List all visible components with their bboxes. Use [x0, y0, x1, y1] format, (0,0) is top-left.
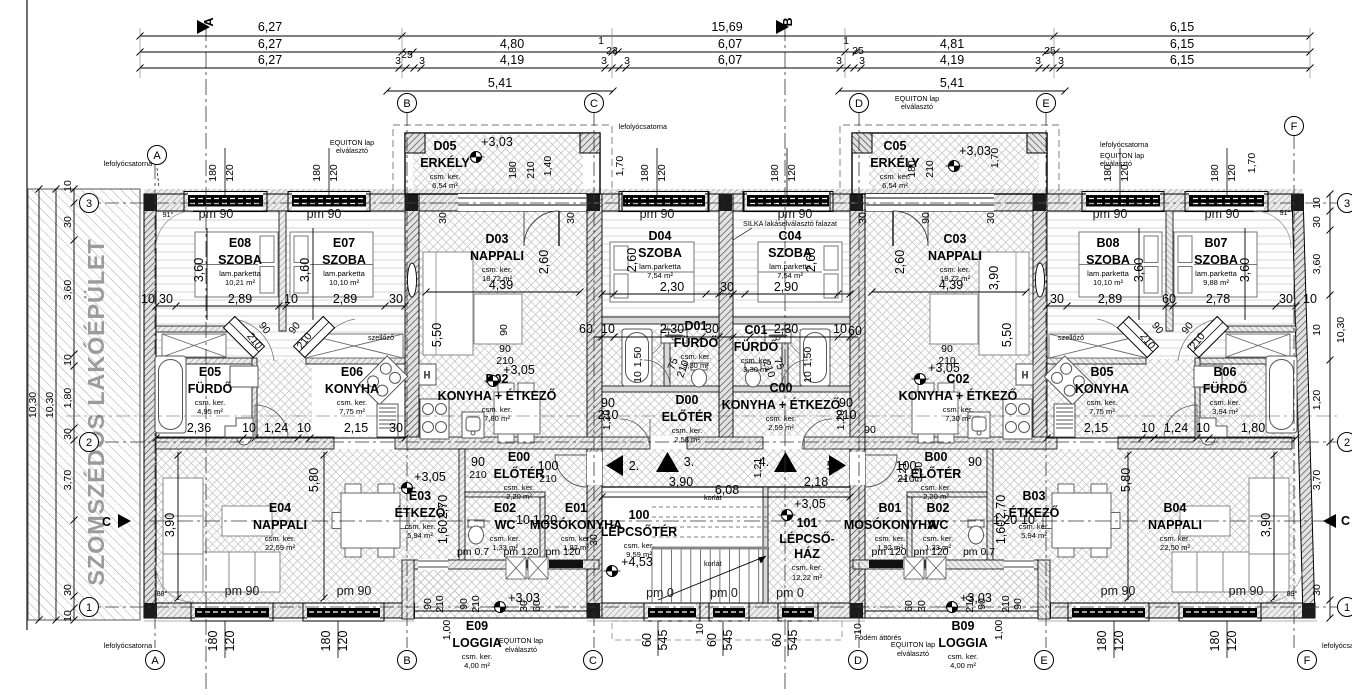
- wardrobe hall: [1226, 334, 1290, 357]
- svg-text:A: A: [151, 655, 159, 667]
- svg-text:lam.parketta: lam.parketta: [639, 262, 682, 271]
- svg-text:2,60: 2,60: [804, 248, 818, 272]
- cabinet E06: [1049, 334, 1147, 358]
- svg-text:2,30: 2,30: [774, 322, 798, 336]
- svg-text:pm 90: pm 90: [1205, 207, 1240, 221]
- stove E06: [1044, 356, 1093, 405]
- dining table E03: [1043, 484, 1120, 557]
- balcony door glazing D05: [458, 194, 586, 211]
- balcony door glazing C05: [866, 194, 994, 211]
- vent ovals in party walls: [408, 263, 417, 297]
- svg-text:120: 120: [336, 631, 350, 652]
- svg-text:C: C: [589, 655, 597, 667]
- svg-text:2,90: 2,90: [774, 280, 798, 294]
- svg-text:csm. ker.: csm. ker.: [624, 541, 654, 550]
- svg-text:csm. ker.: csm. ker.: [923, 534, 953, 543]
- svg-text:ERKÉLY: ERKÉLY: [870, 155, 920, 170]
- svg-text:60: 60: [903, 600, 915, 612]
- svg-text:csm. ker.: csm. ker.: [1087, 398, 1117, 407]
- svg-text:7,75 m²: 7,75 m²: [339, 407, 365, 416]
- svg-text:5,41: 5,41: [488, 76, 512, 90]
- sink D02: [968, 412, 990, 438]
- room labels: [218, 236, 262, 287]
- svg-text:1,60: 1,60: [436, 520, 450, 544]
- svg-text:E07: E07: [333, 236, 355, 250]
- svg-text:210: 210: [924, 160, 936, 178]
- svg-text:180: 180: [1209, 164, 1221, 182]
- svg-text:3: 3: [624, 55, 630, 67]
- bed E07: [290, 232, 373, 297]
- C unit furniture: [745, 242, 1033, 443]
- dining table D02: [912, 383, 958, 443]
- wc E05: [236, 421, 252, 445]
- svg-text:4,00 m²: 4,00 m²: [464, 661, 490, 670]
- svg-text:B06: B06: [1214, 365, 1237, 379]
- svg-text:FÜRDŐ: FÜRDŐ: [734, 339, 779, 354]
- bathtub E05: [155, 356, 186, 433]
- svg-text:E: E: [1040, 655, 1047, 667]
- svg-text:B00: B00: [925, 450, 948, 464]
- loggia B09 slab edge: [865, 611, 1038, 618]
- svg-text:C: C: [1341, 514, 1350, 528]
- svg-text:9,88 m²: 9,88 m²: [1203, 278, 1229, 287]
- svg-text:1: 1: [86, 602, 92, 614]
- window top x=188: [184, 192, 267, 212]
- svg-text:10: 10: [284, 292, 298, 306]
- section line B-B: [784, 25, 786, 693]
- svg-text:KONYHA + ÉTKEZŐ: KONYHA + ÉTKEZŐ: [899, 388, 1018, 403]
- svg-text:ERKÉLY: ERKÉLY: [420, 155, 470, 170]
- svg-text:210: 210: [539, 473, 557, 485]
- svg-text:pm 90: pm 90: [337, 584, 372, 598]
- svg-text:E00: E00: [508, 450, 530, 464]
- svg-text:csm. ker.: csm. ker.: [921, 483, 951, 492]
- svg-text:22,59 m²: 22,59 m²: [265, 543, 295, 552]
- svg-text:3: 3: [86, 198, 92, 210]
- svg-text:10: 10: [62, 354, 74, 366]
- svg-text:210: 210: [469, 469, 487, 481]
- wall junction blocks: [144, 194, 1315, 618]
- svg-text:elválasztó: elválasztó: [505, 645, 537, 654]
- svg-text:+3,05: +3,05: [794, 497, 826, 511]
- svg-text:10: 10: [242, 421, 256, 435]
- svg-text:3: 3: [1344, 198, 1350, 210]
- svg-text:2,60: 2,60: [625, 248, 639, 272]
- svg-text:10: 10: [1303, 292, 1317, 306]
- interior dimensions: [141, 212, 1317, 601]
- svg-text:+3,05: +3,05: [414, 470, 446, 484]
- svg-text:2,18: 2,18: [804, 475, 828, 489]
- svg-text:csm. ker.: csm. ker.: [337, 398, 367, 407]
- grid C wall: [587, 194, 602, 618]
- svg-text:120: 120: [1226, 164, 1238, 182]
- svg-text:10: 10: [62, 610, 74, 622]
- window dimension pairs bottom: [206, 621, 237, 658]
- window top x=623: [619, 192, 709, 212]
- svg-text:pm 90: pm 90: [307, 207, 342, 221]
- svg-text:D: D: [854, 655, 862, 667]
- svg-text:6,27: 6,27: [258, 37, 282, 51]
- svg-text:1,24: 1,24: [264, 421, 288, 435]
- balcony C05: [840, 125, 1059, 203]
- svg-text:30: 30: [705, 322, 719, 336]
- svg-text:B: B: [403, 655, 410, 667]
- svg-text:10: 10: [141, 292, 155, 306]
- svg-text:2,60: 2,60: [893, 250, 907, 274]
- svg-text:5,80: 5,80: [307, 468, 321, 492]
- svg-text:+3,03: +3,03: [481, 135, 513, 149]
- svg-text:C00: C00: [770, 381, 793, 395]
- svg-text:30: 30: [389, 292, 403, 306]
- svg-text:4,80: 4,80: [500, 37, 524, 51]
- svg-text:120: 120: [656, 164, 668, 182]
- svg-text:SZOBA: SZOBA: [218, 253, 262, 267]
- svg-text:E06: E06: [341, 365, 363, 379]
- svg-text:lefolyócsatorna: lefolyócsatorna: [104, 159, 152, 168]
- svg-text:5,50: 5,50: [1000, 323, 1014, 347]
- svg-text:2,15: 2,15: [1084, 421, 1108, 435]
- svg-text:pm 120: pm 120: [913, 546, 948, 558]
- top dimension rows: [137, 20, 1314, 95]
- grid axes: [66, 112, 1340, 648]
- svg-text:pm 90: pm 90: [225, 584, 260, 598]
- svg-text:SZOBA: SZOBA: [1086, 253, 1130, 267]
- svg-text:H: H: [424, 370, 431, 380]
- svg-text:210: 210: [836, 408, 857, 422]
- svg-text:lam.parketta: lam.parketta: [1087, 269, 1130, 278]
- neighbouring building hatched strip: [27, 0, 140, 630]
- svg-text:10: 10: [1196, 421, 1210, 435]
- svg-text:90: 90: [968, 455, 982, 469]
- svg-text:30: 30: [1279, 292, 1293, 306]
- svg-text:E05: E05: [199, 365, 221, 379]
- svg-text:2,70: 2,70: [436, 495, 450, 519]
- svg-text:90: 90: [941, 343, 953, 355]
- svg-text:30: 30: [720, 280, 734, 294]
- svg-text:2,20 m²: 2,20 m²: [923, 492, 949, 501]
- svg-text:3,90: 3,90: [987, 266, 1001, 290]
- svg-text:1,70: 1,70: [614, 156, 626, 177]
- basin D01: [661, 330, 687, 343]
- dining table E03: [332, 484, 409, 557]
- svg-text:D00: D00: [676, 393, 699, 407]
- svg-text:100: 100: [896, 459, 917, 473]
- svg-text:NAPPALI: NAPPALI: [470, 249, 524, 263]
- svg-text:1,00: 1,00: [441, 620, 453, 641]
- svg-text:22,50 m²: 22,50 m²: [1160, 543, 1190, 552]
- svg-text:3,90: 3,90: [669, 475, 693, 489]
- svg-text:1: 1: [1344, 602, 1350, 614]
- svg-text:88°: 88°: [157, 589, 168, 598]
- svg-text:3: 3: [419, 55, 425, 67]
- svg-text:180: 180: [769, 164, 781, 182]
- svg-text:120: 120: [1225, 631, 1239, 652]
- svg-text:3,94 m²: 3,94 m²: [1212, 407, 1238, 416]
- svg-text:A: A: [153, 150, 161, 162]
- svg-text:4,95 m²: 4,95 m²: [197, 407, 223, 416]
- party wall E/D: [405, 194, 419, 449]
- svg-text:4,39: 4,39: [939, 278, 963, 292]
- svg-text:C05: C05: [884, 139, 907, 153]
- svg-text:lam.parketta: lam.parketta: [1195, 269, 1238, 278]
- svg-text:3,60: 3,60: [1132, 258, 1146, 282]
- svg-text:10: 10: [62, 180, 74, 192]
- svg-text:5,94 m²: 5,94 m²: [407, 531, 433, 540]
- svg-text:csm. ker.: csm. ker.: [1210, 398, 1240, 407]
- svg-text:1,20: 1,20: [1311, 390, 1323, 411]
- svg-text:1,50: 1,50: [802, 347, 814, 368]
- svg-text:30: 30: [159, 292, 173, 306]
- wc D01: [691, 363, 707, 387]
- sofa D03: [979, 252, 1029, 355]
- svg-text:2: 2: [1344, 437, 1350, 449]
- svg-text:B01: B01: [879, 501, 902, 515]
- svg-text:pm 0.7: pm 0.7: [457, 546, 489, 558]
- svg-text:10,10 m²: 10,10 m²: [1093, 278, 1123, 287]
- stair hall walls: [602, 486, 850, 488]
- svg-text:SZOBA: SZOBA: [322, 253, 366, 267]
- svg-text:csm. ker.: csm. ker.: [561, 534, 591, 543]
- stove D02: [420, 399, 449, 439]
- svg-text:10: 10: [1141, 421, 1155, 435]
- svg-text:1: 1: [598, 35, 604, 47]
- svg-text:120: 120: [224, 164, 236, 182]
- svg-text:210: 210: [525, 161, 537, 179]
- svg-text:C03: C03: [944, 232, 967, 246]
- svg-text:1,00: 1,00: [993, 620, 1005, 641]
- window dimension pairs top: [207, 148, 236, 198]
- centre party wall D/C: [719, 194, 733, 449]
- corner doors bedrooms: [1187, 316, 1228, 357]
- svg-text:B: B: [781, 17, 795, 26]
- entrance door x=648: [644, 603, 700, 621]
- svg-text:90: 90: [499, 343, 511, 355]
- svg-text:90: 90: [471, 455, 485, 469]
- svg-text:SILKA lakáselválasztó falazat: SILKA lakáselválasztó falazat: [743, 219, 837, 228]
- svg-text:91°: 91°: [163, 210, 174, 219]
- svg-text:180: 180: [1208, 631, 1222, 652]
- floor finishes: [156, 135, 850, 618]
- exterior and interior walls: [144, 189, 1317, 621]
- svg-text:NAPPALI: NAPPALI: [1148, 518, 1202, 532]
- svg-text:1,40: 1,40: [542, 156, 554, 177]
- svg-text:2,58 m²: 2,58 m²: [674, 435, 700, 444]
- svg-text:100: 100: [538, 459, 559, 473]
- svg-text:30: 30: [62, 216, 74, 228]
- svg-text:7,75 m²: 7,75 m²: [1089, 407, 1115, 416]
- svg-text:elválasztó: elválasztó: [901, 102, 933, 111]
- corner doors bedrooms: [223, 316, 264, 357]
- svg-text:10: 10: [833, 322, 847, 336]
- svg-text:180: 180: [311, 164, 323, 182]
- svg-text:E08: E08: [229, 236, 251, 250]
- svg-text:E: E: [1042, 98, 1049, 110]
- wc D01: [745, 363, 761, 387]
- svg-text:120: 120: [223, 631, 237, 652]
- svg-text:10: 10: [632, 371, 644, 383]
- svg-text:pm 90: pm 90: [1093, 207, 1128, 221]
- svg-text:pm 120: pm 120: [871, 546, 906, 558]
- svg-text:6,54 m²: 6,54 m²: [432, 181, 458, 190]
- svg-text:6,27: 6,27: [258, 53, 282, 67]
- window top x=748: [744, 192, 830, 212]
- svg-text:210: 210: [598, 408, 619, 422]
- wc E05: [1200, 421, 1216, 445]
- svg-text:SZOBA: SZOBA: [638, 246, 682, 260]
- dining table D02: [494, 383, 540, 443]
- svg-text:6,15: 6,15: [1170, 20, 1194, 34]
- svg-text:5.: 5.: [827, 459, 837, 473]
- svg-text:C: C: [590, 98, 598, 110]
- B unit furniture: [904, 232, 1297, 592]
- svg-text:Födém áttörés: Födém áttörés: [855, 633, 902, 642]
- svg-text:EQUITON lap: EQUITON lap: [499, 636, 543, 645]
- svg-text:91°: 91°: [1280, 208, 1291, 217]
- svg-text:korlát: korlát: [704, 559, 722, 568]
- svg-text:C: C: [102, 515, 111, 529]
- svg-text:3,60: 3,60: [1238, 258, 1252, 282]
- svg-text:korlát: korlát: [704, 493, 722, 502]
- svg-text:89°: 89°: [1287, 589, 1298, 598]
- svg-text:210: 210: [938, 355, 956, 367]
- C unit partition walls: [733, 317, 850, 392]
- svg-text:csm. ker.: csm. ker.: [482, 265, 512, 274]
- bathtub D01: [800, 329, 830, 386]
- svg-text:2,89: 2,89: [228, 292, 252, 306]
- svg-text:3,60: 3,60: [62, 280, 74, 301]
- svg-text:10: 10: [1311, 324, 1323, 336]
- svg-text:5,50: 5,50: [430, 323, 444, 347]
- svg-text:180: 180: [206, 631, 220, 652]
- svg-text:lefolyócsatorna: lefolyócsatorna: [1100, 140, 1148, 149]
- svg-text:pm 120: pm 120: [545, 546, 580, 558]
- svg-text:A: A: [202, 17, 216, 26]
- svg-text:3.: 3.: [684, 455, 694, 469]
- svg-text:+3,03: +3,03: [960, 591, 992, 605]
- svg-text:7,54 m²: 7,54 m²: [647, 271, 673, 280]
- svg-text:2,59 m²: 2,59 m²: [768, 423, 794, 432]
- svg-text:F: F: [1291, 121, 1298, 133]
- svg-text:210: 210: [1000, 595, 1012, 613]
- svg-text:FÜRDŐ: FÜRDŐ: [188, 381, 233, 396]
- svg-text:csm. ker.: csm. ker.: [430, 172, 460, 181]
- svg-text:KONYHA: KONYHA: [1075, 382, 1129, 396]
- svg-text:E01: E01: [565, 501, 587, 515]
- svg-text:csm. ker.: csm. ker.: [943, 405, 973, 414]
- svg-text:2,20 m²: 2,20 m²: [506, 492, 532, 501]
- svg-text:B04: B04: [1164, 501, 1187, 515]
- svg-text:2: 2: [86, 437, 92, 449]
- svg-text:210: 210: [496, 355, 514, 367]
- svg-text:1,70: 1,70: [1246, 153, 1258, 174]
- svg-text:FÜRDŐ: FÜRDŐ: [1203, 381, 1248, 396]
- svg-text:elválasztó: elválasztó: [897, 649, 929, 658]
- svg-text:120: 120: [786, 164, 798, 182]
- window top x=292: [288, 192, 370, 212]
- svg-text:10,30: 10,30: [44, 392, 56, 418]
- svg-text:lefolyócsatorna: lefolyócsatorna: [104, 641, 152, 650]
- svg-text:180: 180: [639, 164, 651, 182]
- D unit furniture: [419, 242, 707, 443]
- svg-text:90: 90: [920, 212, 932, 224]
- svg-text:B07: B07: [1205, 236, 1228, 250]
- grid D wall: [850, 194, 865, 618]
- svg-text:pm 90: pm 90: [1229, 584, 1264, 598]
- svg-text:csm. ker.: csm. ker.: [940, 265, 970, 274]
- svg-text:90: 90: [1012, 598, 1024, 610]
- interior door arcs: [255, 405, 288, 437]
- svg-text:csm. ker.: csm. ker.: [681, 352, 711, 361]
- svg-text:60: 60: [848, 324, 862, 338]
- bed D04: [758, 242, 842, 302]
- svg-text:10,21 m²: 10,21 m²: [225, 278, 255, 287]
- svg-text:E03: E03: [409, 489, 431, 503]
- svg-text:C04: C04: [779, 229, 802, 243]
- svg-text:NAPPALI: NAPPALI: [928, 249, 982, 263]
- svg-text:120: 120: [1112, 631, 1126, 652]
- svg-text:MOSÓKONYHA: MOSÓKONYHA: [844, 517, 936, 532]
- right vertical dimension chain: [1311, 191, 1347, 622]
- svg-text:210: 210: [470, 595, 482, 613]
- level markers: [468, 152, 485, 163]
- svg-text:2,30: 2,30: [660, 280, 684, 294]
- svg-text:H: H: [1022, 370, 1029, 380]
- svg-text:pm 120: pm 120: [503, 546, 538, 558]
- svg-text:7,80 m²: 7,80 m²: [484, 414, 510, 423]
- wc E02: [468, 520, 484, 544]
- svg-text:csm. ker.: csm. ker.: [265, 534, 295, 543]
- svg-text:csm. ker.: csm. ker.: [672, 426, 702, 435]
- svg-text:B02: B02: [927, 501, 950, 515]
- svg-text:6,54 m²: 6,54 m²: [882, 181, 908, 190]
- svg-text:210: 210: [434, 595, 446, 613]
- bed E08: [195, 232, 278, 297]
- svg-text:2,60: 2,60: [537, 250, 551, 274]
- svg-text:NAPPALI: NAPPALI: [253, 518, 307, 532]
- svg-text:101: 101: [797, 516, 818, 530]
- entrance arrows: [606, 455, 623, 476]
- svg-text:3: 3: [601, 55, 607, 67]
- svg-text:LOGGIA: LOGGIA: [452, 636, 501, 650]
- svg-text:7,54 m²: 7,54 m²: [777, 271, 803, 280]
- svg-text:180: 180: [319, 631, 333, 652]
- svg-text:2,78: 2,78: [1206, 292, 1230, 306]
- svg-text:3,60: 3,60: [192, 258, 206, 282]
- svg-text:3,70: 3,70: [1311, 470, 1323, 491]
- svg-text:B08: B08: [1097, 236, 1120, 250]
- svg-text:lam.parketta: lam.parketta: [219, 269, 262, 278]
- svg-text:F: F: [1304, 655, 1311, 667]
- svg-text:12,22 m²: 12,22 m²: [792, 573, 822, 582]
- staircase 100: [652, 497, 768, 603]
- svg-text:30: 30: [565, 212, 577, 224]
- D unit partition walls: [602, 317, 719, 392]
- svg-text:pm 0: pm 0: [776, 586, 804, 600]
- svg-text:5,94 m²: 5,94 m²: [1021, 531, 1047, 540]
- stove D02: [1003, 399, 1032, 439]
- svg-text:csm. ker.: csm. ker.: [948, 652, 978, 661]
- svg-text:szellőző: szellőző: [1058, 333, 1084, 342]
- svg-text:2,36: 2,36: [187, 421, 211, 435]
- wall grid row 2: [156, 437, 1292, 449]
- section line A-A: [205, 25, 207, 693]
- svg-text:10,30: 10,30: [27, 392, 39, 418]
- svg-text:pm 0: pm 0: [646, 586, 674, 600]
- svg-text:1: 1: [843, 35, 849, 47]
- svg-text:E04: E04: [269, 501, 291, 515]
- grid bubbles: [148, 146, 167, 165]
- svg-text:D05: D05: [434, 139, 457, 153]
